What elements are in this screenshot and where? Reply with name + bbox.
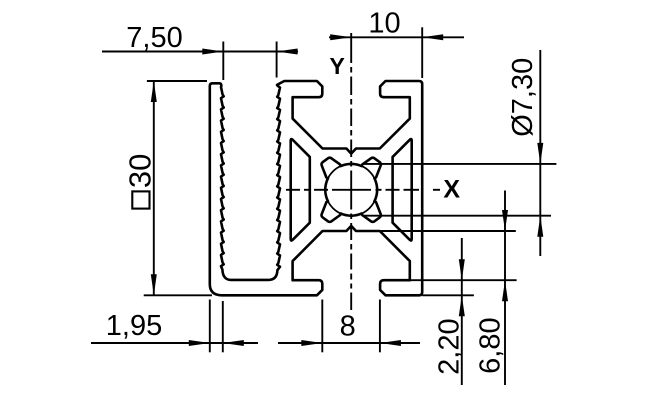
svg-text:1,95: 1,95 — [106, 310, 162, 342]
central screw channel (X bore) — [322, 158, 381, 222]
svg-text:30: 30 — [123, 154, 158, 188]
reference line bottom face — [422, 294, 474, 296]
right cavity chamber — [393, 139, 412, 241]
arrowheads dim 2,20 — [459, 259, 465, 280]
arrowheads dim 7,50 — [202, 49, 223, 55]
arrowheads dim d7,30 — [537, 143, 543, 164]
arrowheads dim 8 — [301, 340, 322, 346]
dim 6,80 line — [504, 191, 506, 386]
arrowheads dim square-30 — [151, 81, 157, 102]
dim 8 — [278, 342, 420, 344]
horizontal centerline X axis — [286, 189, 300, 191]
profile outline (30x30 extrusion with panel clamp arm) — [210, 81, 422, 295]
dim d7,30 line — [539, 50, 541, 256]
vertical centerline Y axis — [350, 33, 352, 63]
svg-text:7,50: 7,50 — [126, 22, 182, 54]
svg-text:8: 8 — [340, 311, 356, 343]
reference line circle bottom — [362, 215, 551, 217]
dim 2,20 line — [461, 238, 463, 385]
reference line lip surface — [405, 279, 517, 281]
svg-text:Ø7,30: Ø7,30 — [507, 58, 539, 137]
dim square-30 — [153, 81, 155, 295]
label square-30 (rotated) — [123, 154, 158, 209]
dim 10 — [329, 36, 464, 38]
arrowheads dim 1,95 — [189, 340, 210, 346]
core hole circle (d=7.30) — [325, 164, 377, 216]
svg-text:Y: Y — [330, 53, 345, 79]
svg-text:6,80: 6,80 — [475, 317, 507, 373]
reference line slot floor — [381, 230, 516, 232]
dim 1,95 — [91, 342, 258, 344]
reference line circle top — [362, 163, 556, 165]
dim 7,50 — [102, 51, 298, 53]
svg-text:2,20: 2,20 — [434, 318, 466, 374]
left cavity chamber — [291, 139, 412, 241]
svg-text:10: 10 — [368, 8, 400, 40]
arrowheads dim 6,80 — [502, 210, 508, 231]
thin lines: reference + dimension lines — [91, 27, 556, 385]
arrowheads dim 10 — [330, 34, 351, 40]
svg-text:X: X — [443, 175, 460, 203]
